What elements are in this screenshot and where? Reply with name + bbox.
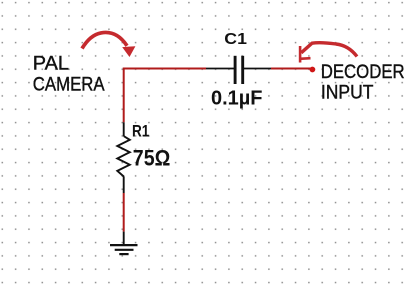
ground symbol	[110, 245, 138, 254]
svg-text:CAMERA: CAMERA	[33, 74, 105, 95]
capacitor C1	[235, 56, 243, 84]
node: decoder input red dot	[310, 67, 316, 73]
wire: vertical red segment from corner down to resistor	[123, 68, 125, 123]
svg-text:R1: R1	[132, 123, 149, 141]
svg-text:INPUT: INPUT	[321, 82, 374, 103]
wire: resistor bottom black pin stub	[123, 176, 125, 193]
wire: resistor top black pin stub	[123, 122, 125, 136]
wire: horizontal red segment from capacitor to decoder node	[271, 68, 311, 70]
wire: capacitor right black pin stub	[244, 68, 271, 70]
svg-text:75Ω: 75Ω	[133, 145, 171, 170]
wire: horizontal red segment from corner to capacitor left pin	[123, 68, 206, 70]
svg-text:PAL: PAL	[33, 53, 69, 74]
label: DECODER INPUT	[321, 62, 405, 103]
label: PAL CAMERA	[33, 53, 105, 95]
annotation arrow: PAL camera curved arrow	[82, 32, 135, 57]
wire: vertical red segment from resistor to ground	[123, 193, 125, 232]
svg-text:DECODER: DECODER	[321, 62, 405, 83]
wire: capacitor left black pin stub	[206, 68, 234, 70]
svg-text:0.1µF: 0.1µF	[211, 88, 263, 110]
svg-text:C1: C1	[224, 31, 247, 48]
wire: ground black stub	[123, 232, 125, 245]
resistor R1 zigzag	[117, 136, 130, 176]
annotation arrow: decoder input arrow	[300, 43, 357, 63]
